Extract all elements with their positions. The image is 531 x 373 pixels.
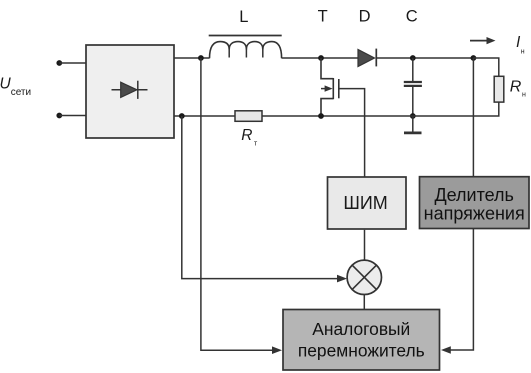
svg-text:L: L	[239, 8, 248, 26]
resistor Rt	[235, 111, 262, 122]
label Rn	[510, 78, 526, 98]
label Rt	[241, 127, 258, 147]
svg-text:т: т	[254, 140, 258, 147]
arrow into analog multiplier right	[441, 346, 451, 354]
input terminal top	[56, 60, 62, 66]
svg-text:D: D	[359, 8, 371, 26]
wire gate to PWM	[339, 89, 365, 177]
label I_n	[516, 34, 525, 56]
svg-text:T: T	[318, 8, 328, 26]
svg-text:н: н	[521, 49, 525, 56]
wire input bottom	[59, 115, 86, 117]
ground	[404, 116, 422, 133]
voltage divider block	[420, 177, 530, 229]
arrow into analog multiplier left	[272, 346, 282, 354]
svg-text:R: R	[510, 78, 522, 95]
wire inductor to drain node	[282, 57, 358, 59]
wire Rn to bottom rail	[413, 102, 499, 116]
analog multiplier block	[283, 310, 440, 371]
inductor L coil	[210, 42, 282, 59]
arrow into multiplier circle	[337, 275, 347, 283]
node A junction	[179, 113, 185, 119]
bridge rectifier block	[86, 45, 174, 138]
inductor coil tails	[229, 49, 263, 58]
svg-text:напряжения: напряжения	[424, 203, 525, 223]
diode D	[358, 49, 376, 67]
svg-text:C: C	[406, 8, 418, 26]
PWM block	[328, 177, 407, 229]
node divider top junction	[471, 55, 477, 61]
wire rectifier to node B	[174, 57, 210, 59]
wire multiplier circle to analog multiplier	[363, 295, 365, 311]
bottom rail left segment	[174, 115, 235, 117]
svg-text:R: R	[241, 127, 252, 144]
wire diode to cap node	[376, 57, 473, 59]
node capacitor top junction	[410, 55, 416, 61]
transistor arrow	[321, 85, 333, 91]
multiplier circle	[347, 260, 381, 294]
svg-text:н: н	[522, 92, 526, 99]
node capacitor bottom junction	[410, 113, 416, 119]
wire to load corner	[473, 58, 498, 76]
wire node B to analog multiplier	[201, 58, 273, 350]
resistor Rn	[494, 76, 504, 102]
svg-text:ШИМ: ШИМ	[343, 193, 387, 213]
label U_seti	[0, 76, 31, 98]
input terminal bottom	[56, 113, 62, 119]
node drain junction	[318, 55, 324, 61]
bridge diode symbol	[112, 81, 148, 99]
arrow I_n	[470, 37, 496, 44]
inductor L core bar	[209, 35, 282, 37]
wire node A to multiplier	[182, 116, 338, 279]
svg-text:Аналоговый: Аналоговый	[312, 319, 410, 339]
bottom rail middle segment	[262, 115, 413, 117]
node source junction	[318, 113, 324, 119]
svg-text:Делитель: Делитель	[434, 185, 514, 205]
wire top rail to divider	[472, 58, 474, 177]
wire PWM to multiplier circle	[364, 230, 366, 260]
svg-text:сети: сети	[11, 87, 31, 98]
svg-text:перемножитель: перемножитель	[298, 341, 425, 361]
capacitor C	[404, 58, 422, 116]
wire input top	[59, 62, 86, 64]
transistor T (MOSFET)	[321, 58, 339, 116]
node B junction	[198, 55, 204, 61]
wire divider to analog multiplier	[450, 229, 474, 351]
